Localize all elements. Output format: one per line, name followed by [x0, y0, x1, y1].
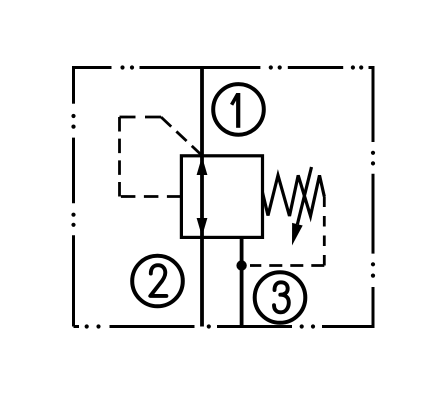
port 1 digit — [232, 94, 238, 105]
up arrowhead inside valve body — [197, 157, 208, 176]
pilot/vent dashed line from spring end: vertical leg — [323, 197, 326, 266]
enclosure boundary right edge (long-dash double-dot) — [372, 66, 375, 328]
junction node dot — [236, 260, 246, 270]
enclosure boundary left edge (long-dash double-dot) — [72, 66, 75, 327]
valve body square — [181, 156, 262, 238]
port 2 label circle — [132, 256, 183, 307]
enclosure boundary bottom edge (long-dash double-dot) — [74, 325, 373, 328]
port 3 digit — [274, 282, 289, 312]
adjustment arrow head — [292, 223, 303, 246]
pilot line (dashed) from valve left side: left leg — [120, 195, 182, 198]
main line port 1 to port 2 (vertical) — [200, 68, 204, 327]
pilot line (dashed) top leg — [120, 116, 162, 119]
pilot/vent dashed line horizontal leg to junction node — [250, 264, 324, 267]
port 2 digit — [150, 265, 166, 296]
drain line to port 3 — [240, 238, 244, 327]
pilot line (dashed) vertical leg — [118, 117, 121, 197]
port 1 label circle — [213, 84, 264, 135]
down arrowhead inside valve body — [197, 218, 208, 237]
adjustment arrow shaft across spring — [297, 167, 311, 224]
spring (zigzag) on right of valve body — [263, 175, 325, 216]
port 3 label circle — [255, 272, 306, 323]
pilot line (dashed) diagonal leg to node at valve inlet — [161, 117, 202, 156]
enclosure boundary top edge (long-dash double-dot) — [74, 66, 375, 69]
